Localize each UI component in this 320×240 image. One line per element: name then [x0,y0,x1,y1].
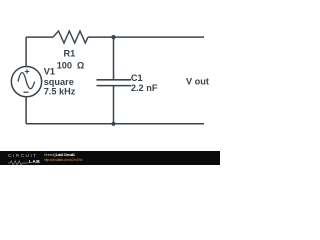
svg-text:V out: V out [186,76,209,86]
svg-text:100 Ω: 100 Ω [57,61,85,71]
svg-text:7.5 kHz: 7.5 kHz [44,87,76,97]
svg-text:square: square [44,77,74,87]
svg-text:2.2 nF: 2.2 nF [131,83,158,93]
svg-text:C1: C1 [131,73,143,83]
svg-text:R1: R1 [64,49,76,59]
svg-text:V1: V1 [44,67,55,77]
